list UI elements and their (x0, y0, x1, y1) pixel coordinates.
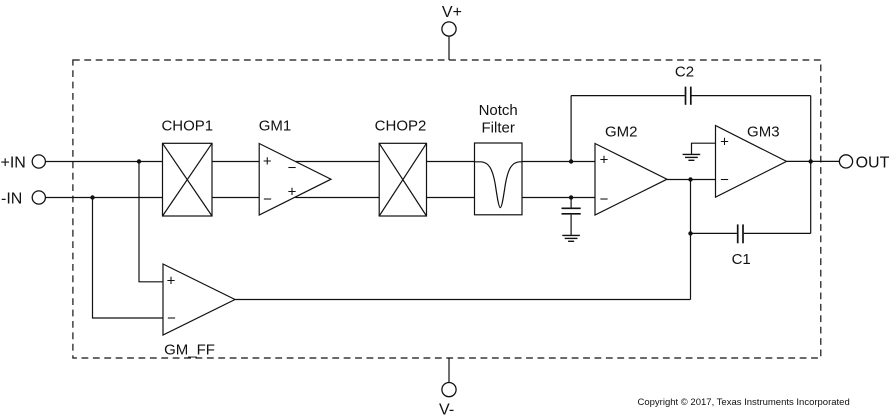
wire -IN to CHOP1 (46, 197, 163, 199)
wire shunt capacitor stem upper (570, 198, 572, 208)
wire GM1 to CHOP2 top (295, 161, 379, 163)
op-amp GM_FF (163, 264, 235, 335)
pin polarity marks GM2 (600, 152, 609, 209)
chopper CHOP2 (379, 143, 426, 216)
pin polarity marks GM3 (720, 134, 729, 189)
terminal V- (442, 383, 456, 397)
op-amp GM3 (716, 126, 787, 198)
svg-text:V-: V- (439, 401, 454, 418)
svg-text:−: − (288, 159, 297, 176)
svg-text:GM3: GM3 (747, 123, 780, 140)
wire GM2 output to GM3 - input (667, 179, 716, 181)
node on -IN wire (90, 195, 94, 199)
notch filter block (475, 143, 523, 215)
wire V+ stem (448, 36, 450, 60)
node C1 left (688, 231, 692, 235)
wire +IN to CHOP1 (46, 161, 163, 163)
node on +IN wire (137, 159, 141, 163)
svg-text:GM1: GM1 (259, 118, 292, 135)
shunt capacitor on GM2 - input (562, 208, 581, 214)
wire CHOP1 to GM1 bottom (212, 197, 259, 199)
node bottom wire to shunt capacitor (569, 195, 573, 199)
node GM3 output (809, 159, 813, 163)
chopper CHOP1 (163, 143, 213, 216)
svg-text:−: − (263, 191, 272, 208)
svg-text:−: − (600, 191, 609, 208)
wire V- stem (448, 358, 450, 382)
svg-text:−: − (167, 310, 176, 327)
wire GM_FF output (235, 299, 691, 301)
svg-text:V+: V+ (442, 4, 462, 21)
wire C1 right lead (744, 232, 811, 234)
node top wire to C2 (569, 159, 573, 163)
wire CHOP2 to Notch Filter top (427, 161, 475, 163)
terminal V+ (442, 22, 456, 36)
ground at GM3 + input (683, 154, 701, 160)
wire CHOP1 to GM1 top (212, 161, 259, 163)
svg-text:CHOP2: CHOP2 (375, 118, 427, 135)
svg-text:Filter: Filter (482, 120, 515, 137)
wire CHOP2 to Notch Filter bottom (427, 197, 475, 199)
svg-text:+: + (263, 153, 272, 170)
op-amp GM1 (259, 144, 331, 216)
wire Notch Filter to GM2 + input (522, 161, 595, 163)
svg-text:+: + (288, 183, 297, 200)
wire shunt capacitor stem lower (570, 215, 572, 236)
svg-text:+: + (600, 152, 609, 169)
svg-text:+IN: +IN (1, 154, 26, 171)
wire +IN node down to GM_FF + input (139, 162, 163, 282)
chip boundary dashed box (73, 60, 821, 358)
wire C2 riser from top wire node (570, 96, 572, 162)
wire -IN node down to GM_FF - input (93, 198, 164, 319)
pin polarity marks GM1 (263, 153, 297, 208)
wire GM2 output node down to C1 node (690, 180, 692, 300)
svg-text:-IN: -IN (1, 190, 22, 207)
terminal -IN (32, 191, 45, 204)
svg-text:GM_FF: GM_FF (164, 341, 215, 358)
svg-text:+: + (167, 273, 176, 290)
terminal +IN (32, 155, 45, 168)
wire GM3 output to OUT (787, 160, 840, 162)
svg-text:C1: C1 (732, 251, 751, 268)
capacitor C2 (686, 87, 691, 105)
svg-text:OUT: OUT (856, 154, 890, 171)
svg-text:Notch: Notch (479, 102, 518, 119)
wire GM1 to CHOP2 bottom (295, 197, 379, 199)
svg-text:+: + (720, 134, 729, 151)
node GM2 output (688, 177, 692, 181)
wire right feedback vertical C2 to C1 (810, 96, 812, 234)
capacitor C1 (738, 224, 743, 243)
wire Notch Filter to GM2 - input (522, 197, 595, 199)
op-amp GM2 (595, 144, 667, 216)
wire C1 left lead (691, 232, 737, 234)
terminal OUT (839, 155, 852, 168)
wire C2 left lead (571, 95, 685, 97)
svg-text:C2: C2 (675, 64, 694, 81)
svg-text:Copyright © 2017, Texas Instru: Copyright © 2017, Texas Instruments Inco… (638, 397, 850, 408)
svg-text:−: − (720, 171, 729, 188)
svg-text:GM2: GM2 (605, 123, 638, 140)
pin polarity marks GM_FF (167, 273, 177, 328)
wire GM3 + input to ground (692, 143, 716, 154)
svg-text:CHOP1: CHOP1 (161, 118, 213, 135)
wire C2 right lead (692, 95, 811, 97)
ground below shunt capacitor (562, 235, 580, 241)
